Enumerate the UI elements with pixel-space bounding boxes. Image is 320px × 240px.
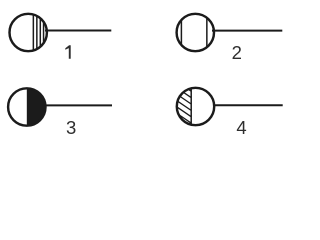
svg-text:4: 4: [236, 117, 246, 138]
svg-text:3: 3: [66, 117, 76, 138]
svg-text:2: 2: [232, 42, 242, 63]
